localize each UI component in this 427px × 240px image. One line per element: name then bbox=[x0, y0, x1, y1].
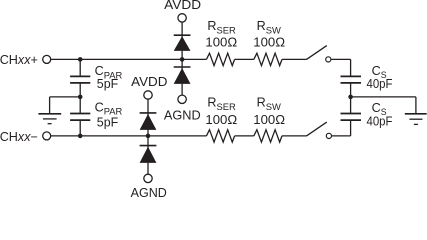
svg-text:100Ω: 100Ω bbox=[253, 113, 285, 127]
svg-text:AVDD: AVDD bbox=[164, 0, 201, 12]
svg-text:5pF: 5pF bbox=[97, 116, 119, 130]
svg-text:AGND: AGND bbox=[164, 109, 201, 123]
svg-text:40pF: 40pF bbox=[367, 77, 393, 91]
svg-text:40pF: 40pF bbox=[367, 114, 393, 128]
svg-text:CHxx−: CHxx− bbox=[0, 130, 38, 144]
svg-text:AGND: AGND bbox=[131, 186, 167, 197]
svg-text:100Ω: 100Ω bbox=[253, 36, 285, 50]
svg-text:CHxx+: CHxx+ bbox=[0, 53, 38, 67]
svg-text:100Ω: 100Ω bbox=[205, 36, 237, 50]
svg-text:5pF: 5pF bbox=[97, 77, 119, 91]
svg-text:100Ω: 100Ω bbox=[205, 113, 237, 127]
svg-text:AVDD: AVDD bbox=[131, 75, 167, 89]
